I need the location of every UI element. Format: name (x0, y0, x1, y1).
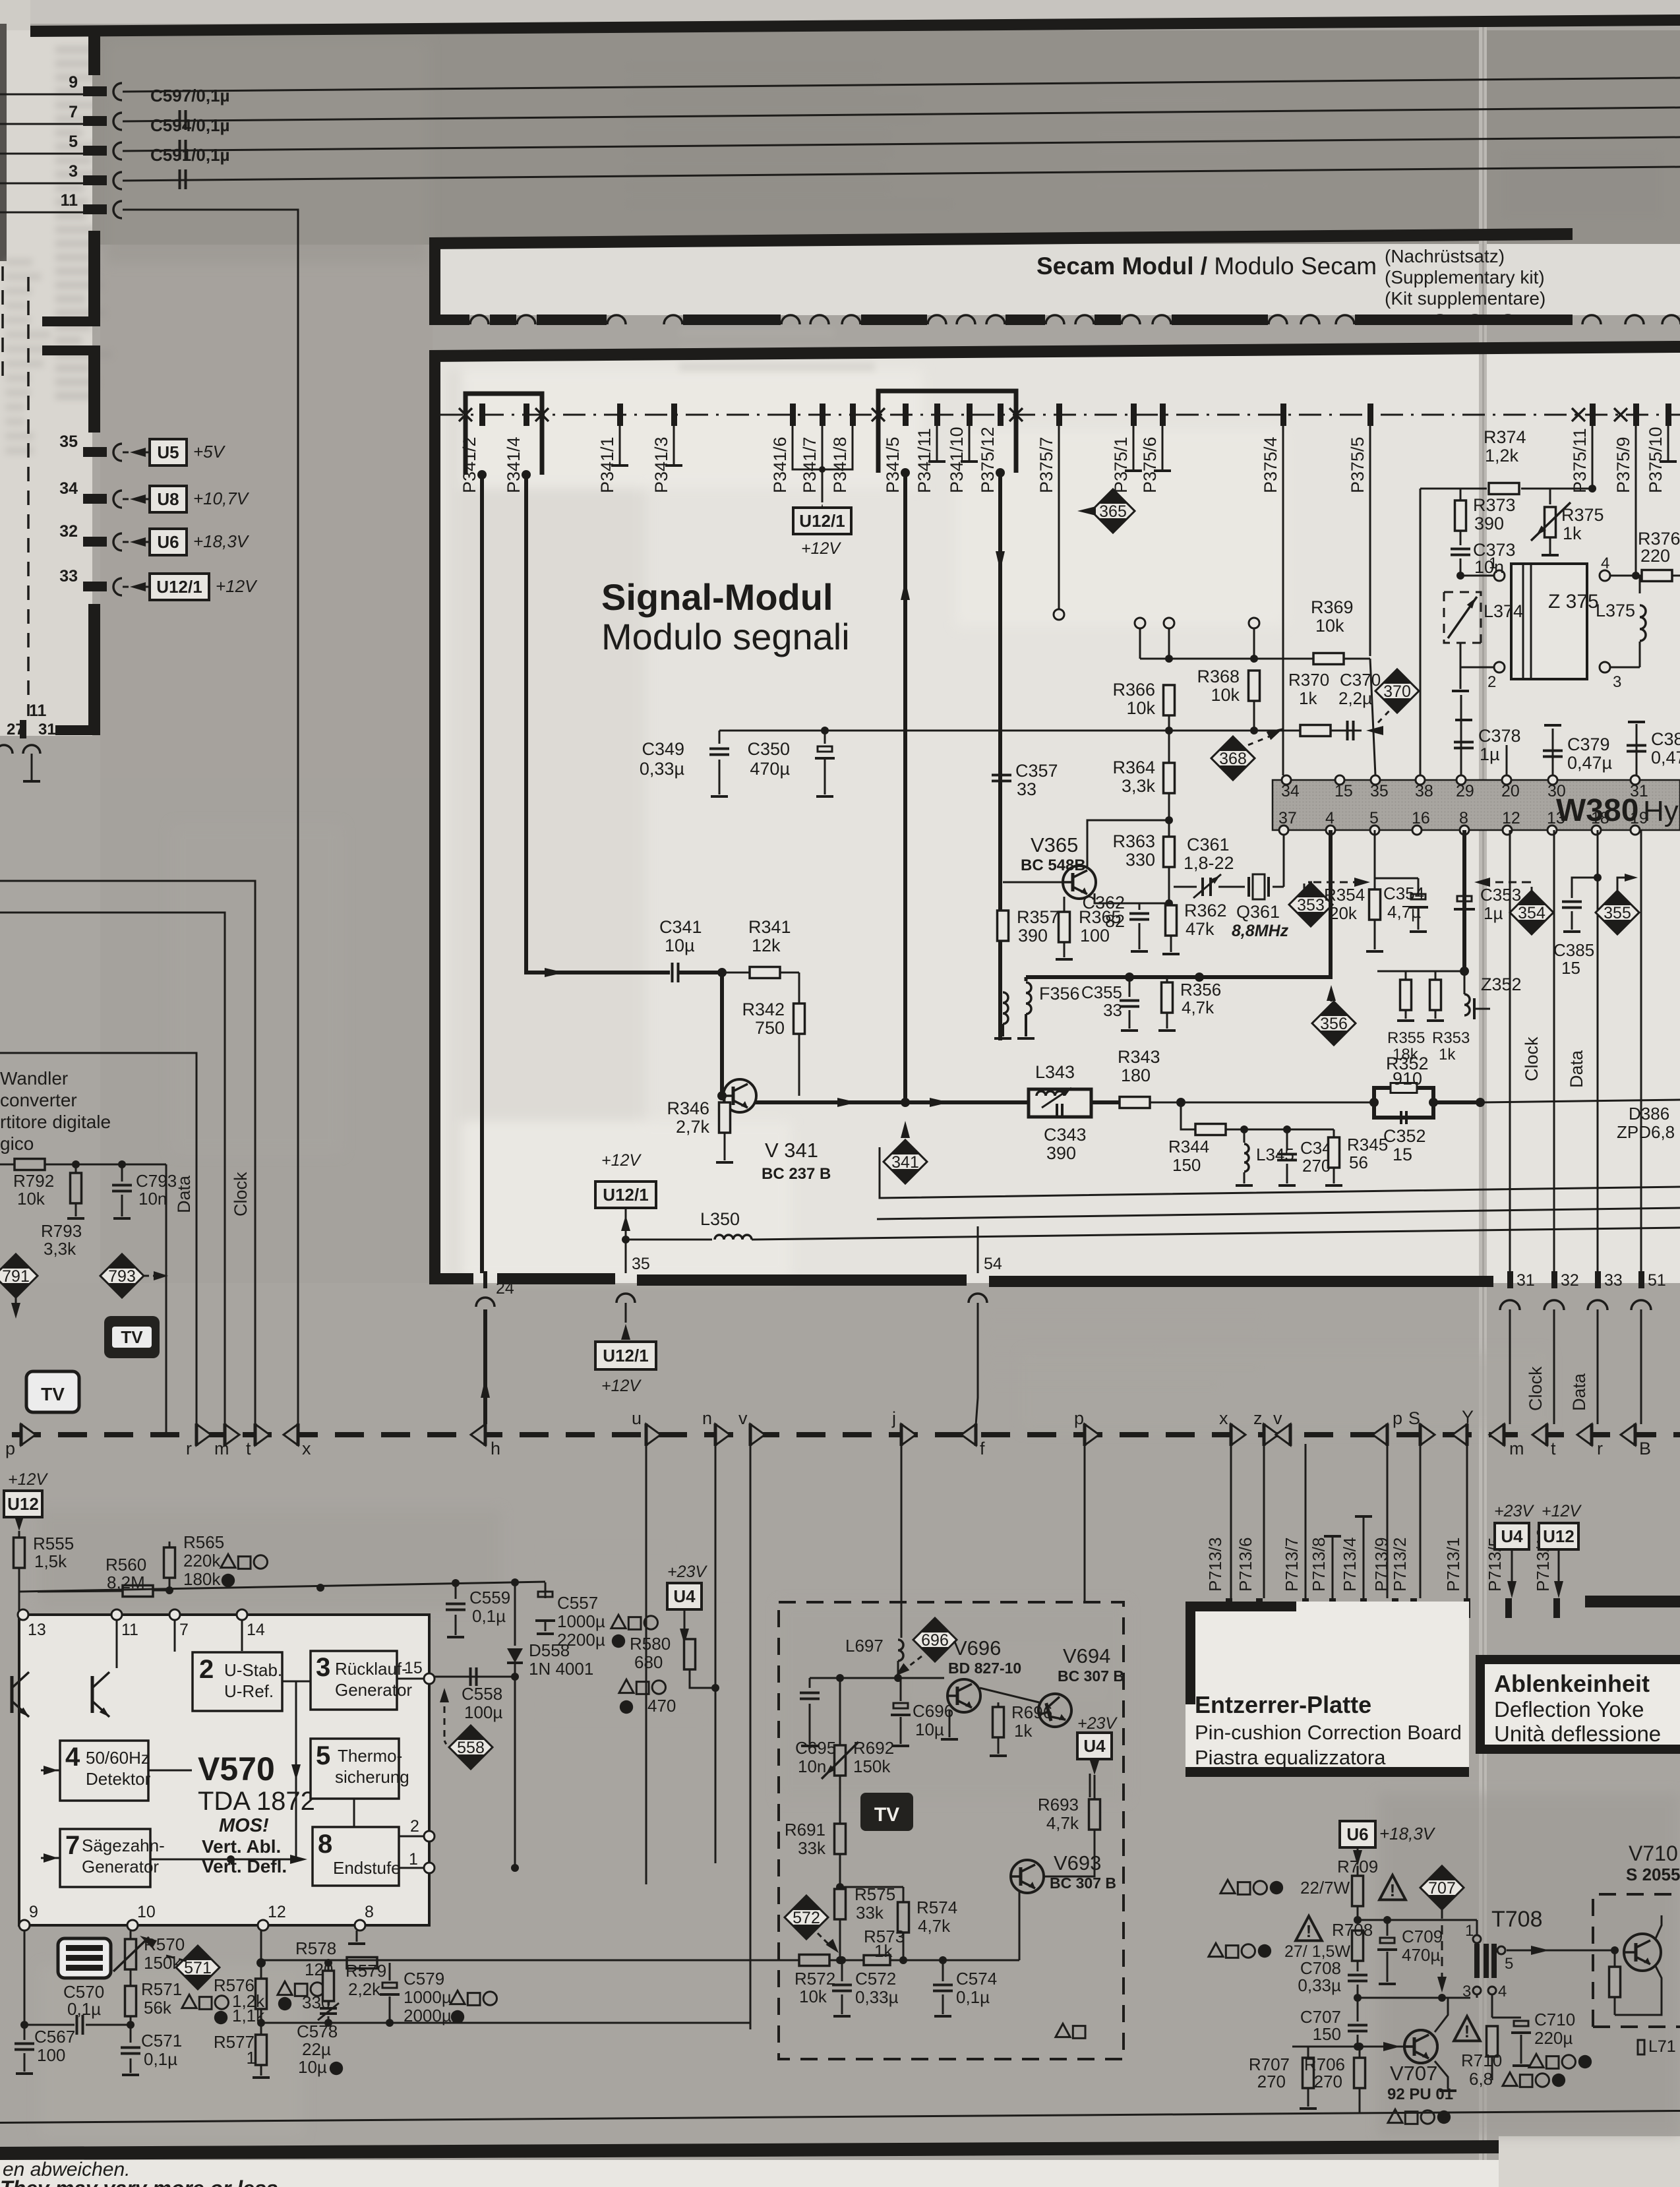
svg-text:C558: C558 (462, 1684, 502, 1704)
svg-text:C343: C343 (1044, 1125, 1087, 1145)
bus connector B (1621, 1424, 1635, 1445)
resistor R575 33k (839, 1887, 841, 1890)
wire net y2400 top (19, 1582, 545, 1592)
svg-text:18: 18 (1591, 809, 1609, 827)
svg-text:3: 3 (316, 1653, 330, 1682)
svg-text:180: 180 (1121, 1065, 1151, 1085)
svg-text:1: 1 (1489, 554, 1497, 572)
wire P341/5 down (thick) (903, 473, 907, 1100)
svg-text:11: 11 (61, 191, 78, 210)
wire y1766 corner down (165, 1164, 167, 1432)
Signal-Modul top border bar (429, 341, 1680, 362)
svg-text:+5V: +5V (193, 442, 226, 462)
transistor V710 (1624, 1934, 1661, 1971)
svg-text:Detektor: Detektor (86, 1769, 151, 1789)
wire net y1849 (877, 1208, 1680, 1219)
module pin hook (1046, 315, 1064, 324)
wire net 3 (123, 167, 1680, 181)
svg-text:8,8MHz: 8,8MHz (1232, 922, 1289, 940)
wire pin29 up (1460, 695, 1462, 775)
resistor R375 1k (variable) (1545, 507, 1556, 537)
node 365 diamond (1091, 489, 1135, 533)
node P375/11 junction (1588, 485, 1596, 493)
W380 top pin 35 (1371, 775, 1380, 785)
resistor R696 1k (998, 1702, 1000, 1708)
pin-cushion symbols (1056, 2023, 1070, 2037)
transistor V707 92PU01 (1404, 2030, 1437, 2063)
svg-text:11: 11 (29, 702, 47, 720)
svg-text:220k: 220k (183, 1551, 221, 1571)
wire P713/4 stub (1363, 1516, 1365, 1598)
svg-text:R370: R370 (1288, 670, 1329, 690)
V710 dashed box (1593, 1894, 1680, 2027)
module edge bar (861, 315, 927, 325)
svg-text:13: 13 (28, 1621, 46, 1639)
svg-text:341: 341 (891, 1153, 919, 1172)
svg-text:29: 29 (1456, 782, 1474, 800)
W380 bottom pin 4 (1326, 825, 1335, 835)
wire pin54 column (977, 1226, 979, 1273)
tank R352/C352 (1374, 1088, 1433, 1118)
svg-text:R571: R571 (141, 1979, 182, 1999)
wire pin38 up to R374 net (1420, 489, 1422, 775)
svg-text:R373: R373 (1473, 495, 1516, 515)
svg-text:C357: C357 (1015, 761, 1058, 781)
resistor R370 1k (1300, 725, 1331, 736)
svg-text:Secam Modul / Modulo Secam: Secam Modul / Modulo Secam (1036, 253, 1377, 280)
Z375 pin3 (1600, 662, 1610, 673)
module edge long bar (1379, 315, 1573, 325)
V570 transistor b (92, 1672, 111, 1720)
wire pin37 up (1283, 830, 1285, 887)
wire S down to P713/2 (1420, 1444, 1422, 1598)
wire P341/6-8 join (793, 426, 853, 469)
svg-text:P375/6: P375/6 (1140, 436, 1160, 493)
wire R574 column (903, 1887, 905, 1903)
capacitor C385 15 (1572, 878, 1598, 898)
wire P375/1 stub (1133, 426, 1135, 471)
svg-text:14: 14 (247, 1621, 265, 1639)
svg-text:z: z (1253, 1408, 1263, 1428)
svg-text:6,8: 6,8 (1469, 2069, 1493, 2089)
bus connector t (255, 1424, 270, 1445)
svg-text:+10,7V: +10,7V (193, 489, 250, 508)
pin 5 hook (113, 142, 122, 160)
svg-text:51: 51 (1648, 1271, 1666, 1290)
resistor R560 8.2M (38, 1591, 123, 1592)
svg-text:470µ: 470µ (1402, 1945, 1440, 1965)
svg-text:15: 15 (404, 1659, 423, 1677)
svg-text:11: 11 (121, 1621, 138, 1639)
svg-text:10µ: 10µ (298, 2057, 327, 2077)
svg-text:35: 35 (59, 433, 78, 451)
svg-text:0,1µ: 0,1µ (144, 2049, 177, 2069)
capacitor C559 0.1u (455, 1583, 457, 1599)
capacitor C355 33 (1129, 977, 1131, 997)
svg-text:V693: V693 (1054, 1851, 1101, 1874)
module pin 33 (1595, 1271, 1601, 1288)
svg-text:R346: R346 (667, 1098, 709, 1118)
node R579 top (324, 1959, 332, 1967)
svg-text:p: p (5, 1439, 15, 1458)
capacitor C597 0.1u (179, 110, 181, 130)
node R344 junction (1176, 1098, 1185, 1107)
net box U12/1 +12V (150, 574, 209, 600)
svg-text:C361: C361 (1187, 835, 1230, 854)
svg-text:x: x (1219, 1408, 1228, 1428)
connector pin P341/1 (617, 404, 623, 426)
wire R352 to right (1433, 1100, 1480, 1104)
left border corner 2 (42, 345, 100, 355)
wire L350 net (626, 1239, 712, 1241)
svg-text:1N 4001: 1N 4001 (529, 1659, 593, 1679)
Entzerrer-Platte label box (1185, 1602, 1469, 1776)
svg-text:m: m (1509, 1439, 1524, 1458)
connector pin P375/7 (1056, 404, 1062, 426)
svg-text:4: 4 (1498, 1983, 1507, 2000)
svg-text:+12V: +12V (216, 576, 258, 596)
capacitor C708 0.33u (1348, 1974, 1367, 1977)
svg-text:4: 4 (65, 1743, 80, 1772)
connector pin P375/12 (998, 404, 1004, 426)
wire V707 base net (1292, 2046, 1403, 2048)
wire net y1473 (1377, 971, 1464, 973)
svg-text:L375: L375 (1596, 601, 1635, 620)
svg-text:C341: C341 (659, 917, 702, 937)
connector pin P713/9 (1392, 1598, 1398, 1618)
capacitor C709 470u (elco) (1387, 1920, 1389, 1936)
node 368 diamond (1211, 736, 1255, 780)
Z375 pin2 (1494, 662, 1505, 673)
svg-text:Hybr: Hybr (1643, 795, 1680, 827)
filter Z375 (1511, 564, 1587, 679)
dash-dot bus line (440, 414, 1680, 416)
svg-text:9: 9 (69, 73, 78, 92)
svg-text:R708: R708 (1332, 1920, 1373, 1940)
svg-text:R362: R362 (1184, 901, 1227, 920)
resistor R342 750 (794, 1004, 805, 1034)
svg-text:C353: C353 (1480, 885, 1521, 905)
module pin hook (1625, 315, 1644, 324)
wire net R369 y999 (1140, 658, 1370, 660)
svg-text:U12: U12 (7, 1494, 39, 1514)
W380 bottom pin 8 (1460, 825, 1469, 835)
svg-text:V 341: V 341 (765, 1139, 818, 1162)
svg-text:1: 1 (409, 1850, 418, 1869)
module edge bar (490, 315, 516, 325)
warning triangle R710 (1454, 2016, 1480, 2041)
svg-text:2,7k: 2,7k (676, 1117, 710, 1137)
U4 box pincushion (1077, 1733, 1112, 1759)
pin 9 tick (83, 86, 107, 96)
wire tank to R343 (1091, 1100, 1120, 1104)
node P341/2 (477, 470, 487, 479)
bus connector h (471, 1424, 485, 1445)
wire R373 column (1460, 489, 1462, 501)
svg-text:5: 5 (1369, 809, 1379, 827)
cross mark (1614, 408, 1627, 421)
svg-text:4,7k: 4,7k (918, 1916, 951, 1936)
bus connector z (1264, 1424, 1278, 1445)
module pin hook (517, 315, 535, 324)
node 696 diamond (913, 1618, 957, 1662)
resistor R793 3.3k (75, 1164, 77, 1174)
svg-text:R792: R792 (13, 1171, 54, 1191)
svg-text:R344: R344 (1168, 1137, 1209, 1156)
svg-text:54: 54 (984, 1255, 1002, 1273)
connector pin P341/2 (479, 404, 485, 426)
svg-text:R341: R341 (748, 917, 791, 937)
wire R580 to n-line (690, 1669, 715, 1688)
wire pincushion top net (810, 1677, 944, 1679)
connector pin P375/4 (1280, 404, 1286, 426)
node 791 diamond (0, 1254, 38, 1298)
svg-text:x: x (302, 1439, 311, 1458)
resistor R376 220 (1642, 570, 1672, 582)
svg-text:1: 1 (1465, 1922, 1474, 1940)
svg-text:4,7k: 4,7k (1182, 998, 1215, 1017)
svg-text:C574: C574 (956, 1969, 997, 1989)
transistor V341 BC237B (723, 1079, 756, 1112)
svg-text:U-Ref.: U-Ref. (224, 1681, 274, 1701)
node C373-Z375 (1456, 572, 1464, 580)
node bus dots (1125, 973, 1134, 982)
net box U12/1 upper (625, 1214, 627, 1240)
svg-text:v: v (1273, 1408, 1282, 1428)
pin-cushion dashed box (779, 1602, 1124, 2059)
svg-text:(Kit supplementare): (Kit supplementare) (1385, 288, 1545, 309)
top-left vertical border stub (88, 34, 100, 75)
wire V696 emitter (949, 1710, 951, 1737)
svg-text:Sägezahn-: Sägezahn- (82, 1836, 165, 1855)
svg-text:12k: 12k (752, 936, 781, 955)
module pin hook (1582, 315, 1601, 324)
svg-text:100µ: 100µ (464, 1702, 502, 1722)
wire P375/7 down (1058, 426, 1060, 609)
svg-text:Clock: Clock (231, 1172, 251, 1216)
left border segment (88, 604, 100, 727)
bus connector u (646, 1424, 661, 1445)
net box U8 +10,7V (150, 486, 187, 512)
svg-text:h: h (491, 1439, 500, 1458)
module pin hook (1662, 315, 1680, 324)
svg-text:+23V: +23V (1077, 1714, 1118, 1733)
svg-text:+23V: +23V (667, 1563, 707, 1581)
W380 bottom pin 5 (1370, 825, 1379, 835)
svg-text:Signal-Modul: Signal-Modul (601, 576, 833, 618)
svg-text:U4: U4 (1083, 1736, 1106, 1756)
capacitor C591 0.1u (179, 169, 181, 189)
wire n down (715, 1444, 717, 1863)
svg-text:Endstufe: Endstufe (333, 1858, 401, 1878)
svg-text:R572: R572 (795, 1969, 835, 1989)
svg-text:33: 33 (1604, 1271, 1623, 1290)
svg-text:558: 558 (457, 1739, 485, 1757)
connector pin P713/1 (1464, 1598, 1470, 1618)
resistor R574 4.7k (898, 1902, 909, 1932)
wire P375/9 down (1635, 426, 1637, 576)
wire P375/5 down to pin35 (1369, 426, 1371, 656)
wire P713/8 stub (1332, 1536, 1334, 1598)
connector pin P713/4 (1360, 1598, 1367, 1618)
svg-text:353: 353 (1297, 896, 1325, 914)
transistor V696 BD827-10 (947, 1679, 980, 1712)
svg-text:32: 32 (1561, 1271, 1579, 1290)
wire P375/4 down to pin34 (1282, 426, 1284, 775)
svg-text:38: 38 (1415, 782, 1433, 800)
svg-text:365: 365 (1099, 502, 1127, 521)
svg-text:C354: C354 (1383, 884, 1424, 903)
net box U6 +18.3V (1340, 1821, 1375, 1847)
svg-text:C709: C709 (1402, 1927, 1443, 1946)
connector pin P375/11 (1590, 404, 1596, 426)
svg-text:U12/1: U12/1 (603, 1185, 648, 1205)
svg-text:C579: C579 (404, 1969, 444, 1989)
svg-text:C696: C696 (913, 1701, 953, 1721)
V570 block 4 Detektor (60, 1741, 148, 1801)
capacitor C579 1000u 2000u (elco) (389, 1963, 391, 1981)
bus connector m (225, 1424, 239, 1445)
connector pin P713/3 (1226, 1598, 1232, 1618)
pin 33 tick (83, 582, 107, 591)
ground tick Z375 (1460, 667, 1462, 689)
svg-text:1: 1 (247, 2048, 256, 2068)
cross mark (459, 408, 472, 421)
node P341/4 (522, 470, 531, 479)
svg-text:220: 220 (1640, 546, 1670, 566)
svg-text:U5: U5 (157, 442, 179, 462)
capacitor C696 10u (elco) (900, 1678, 902, 1701)
svg-text:R565: R565 (183, 1532, 224, 1552)
coil Z352 (1464, 971, 1466, 994)
wire pin 31 stub (31, 754, 33, 781)
svg-text:31: 31 (38, 721, 56, 738)
connector pin P341/6 (790, 404, 796, 426)
svg-text:Data: Data (1569, 1373, 1589, 1411)
svg-text:355: 355 (1604, 904, 1631, 922)
svg-text:C362: C362 (1082, 893, 1125, 913)
cross mark (1572, 408, 1585, 421)
svg-text:t: t (1551, 1439, 1556, 1458)
svg-text:+12V: +12V (601, 1151, 642, 1170)
pin 31 hook (23, 745, 40, 754)
svg-text:P341/5: P341/5 (883, 436, 903, 493)
capacitor C557 1000u/2200u (elco) (545, 1582, 547, 1598)
svg-text:R342: R342 (742, 1000, 785, 1019)
svg-text:+12V: +12V (801, 539, 841, 558)
resistor R579 2.2k (328, 1963, 330, 1971)
wire P375/6 stub (1162, 426, 1164, 471)
module pin hook (470, 315, 489, 324)
svg-text:9: 9 (29, 1903, 38, 1921)
resistor R363 330 (1164, 837, 1175, 867)
pin 7 tick (83, 116, 107, 126)
wire net y3030 (1358, 1997, 1470, 1999)
svg-text:31: 31 (1516, 1271, 1535, 1290)
svg-text:34: 34 (1281, 782, 1300, 800)
resistor R692 150k variable (839, 1678, 841, 1746)
transistor V694 BC307B (1035, 1690, 1075, 1730)
wire p3 down to P713/9 (1387, 1444, 1389, 1598)
connector pin P341/3 (671, 404, 677, 426)
svg-text:10: 10 (137, 1903, 156, 1921)
resistor R693 4.7k (1094, 1775, 1096, 1799)
svg-text:P375/9: P375/9 (1613, 436, 1633, 493)
svg-text:30: 30 (1547, 782, 1566, 800)
V570 block 2 U-Stab (193, 1652, 282, 1711)
svg-text:696: 696 (921, 1631, 949, 1650)
wire terminal stubs (1139, 628, 1141, 659)
svg-text:P713/7: P713/7 (1282, 1538, 1302, 1592)
wire pin15 net (435, 1676, 515, 1678)
svg-text:Z352: Z352 (1481, 974, 1522, 994)
svg-text:0,47µ: 0,47µ (1651, 748, 1680, 767)
cross mark (1009, 408, 1023, 421)
svg-text:R574: R574 (916, 1898, 957, 1917)
wire z down to P713/6 (1263, 1444, 1265, 1598)
wire v2 down to P713/7 (1305, 1444, 1307, 1598)
svg-text:L71: L71 (1648, 2037, 1676, 2056)
svg-text:R693: R693 (1038, 1795, 1079, 1814)
wire pin 7 left (0, 123, 83, 125)
node L350 (622, 1236, 630, 1243)
resistor R580 680 470 (684, 1639, 696, 1669)
capacitor C594 0.1u (179, 140, 181, 160)
module pin hook (607, 315, 626, 324)
resistor R792 10k (15, 1159, 45, 1170)
svg-text:U8: U8 (157, 489, 179, 509)
pin 35 hook (113, 444, 122, 461)
svg-text:+18,3V: +18,3V (1379, 1824, 1436, 1843)
Signal-Modul bottom border bar (429, 1273, 473, 1284)
svg-text:470: 470 (647, 1696, 676, 1716)
W380 top pin 34 (1282, 775, 1291, 785)
svg-text:n: n (702, 1408, 712, 1428)
svg-text:P341/10: P341/10 (947, 427, 967, 493)
diode D558 1N4001 (514, 1582, 516, 1646)
wire net y2912 (1358, 1919, 1477, 1921)
connector pin P341/7 (820, 404, 825, 426)
wire p2 down (1084, 1444, 1086, 1602)
svg-text:C591/0,1µ: C591/0,1µ (150, 145, 230, 165)
svg-text:P375/1: P375/1 (1111, 436, 1131, 493)
svg-text:R357: R357 (1017, 907, 1060, 927)
bus connector Y (1453, 1424, 1467, 1445)
module pin hook (1499, 315, 1517, 324)
svg-text:R709: R709 (1337, 1857, 1378, 1876)
resistor R354 20k (1374, 830, 1376, 889)
svg-text:33k: 33k (856, 1903, 884, 1923)
wire pin 9 left (0, 94, 83, 96)
svg-text:33: 33 (59, 567, 78, 585)
resistor R365 100 (1064, 897, 1065, 912)
V570 block 3 Ruecklauf (311, 1651, 397, 1710)
svg-text:31: 31 (1630, 782, 1648, 800)
svg-text:P713/6: P713/6 (1236, 1538, 1255, 1592)
svg-text:18k: 18k (1393, 1046, 1419, 1064)
capacitor C354 4.7u (elco) (1375, 878, 1418, 880)
resistor R366 10k (1164, 685, 1175, 715)
capacitor C578 22u 10u (328, 2001, 330, 2006)
svg-text:22/7W: 22/7W (1300, 1878, 1350, 1898)
svg-text:3: 3 (69, 162, 78, 181)
svg-text:1k: 1k (1014, 1721, 1033, 1741)
module pin hook (842, 315, 860, 324)
capacitor C570 0.1u (24, 2024, 75, 2026)
svg-text:P375/10: P375/10 (1646, 427, 1665, 493)
svg-text:+12V: +12V (1542, 1502, 1582, 1520)
module pin hook (664, 315, 682, 324)
